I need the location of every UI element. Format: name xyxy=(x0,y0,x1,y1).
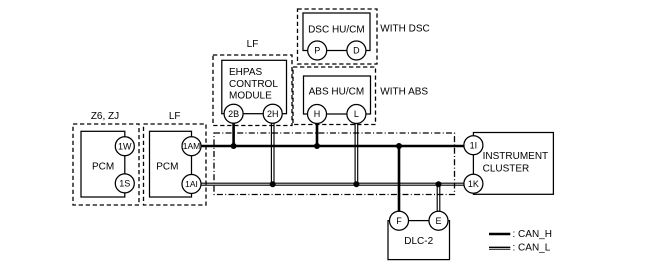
svg-text:F: F xyxy=(396,216,402,226)
component PCM (Z6, ZJ) xyxy=(81,131,125,197)
node Z6, ZJ variant dashed enclosure xyxy=(73,124,139,205)
junction on CAN_H at H drop xyxy=(314,143,320,149)
component PCM (LF) xyxy=(150,131,192,197)
pin 1I xyxy=(464,136,483,155)
node WITH DSC dashed enclosure xyxy=(298,9,378,64)
node LF variant dashed enclosure (EHPAS) xyxy=(213,55,292,126)
svg-text:L: L xyxy=(354,109,359,119)
svg-text:1AI: 1AI xyxy=(185,179,198,189)
svg-text:Z6, ZJ: Z6, ZJ xyxy=(91,111,119,122)
wire CAN_L riser to E (double line) xyxy=(437,183,440,211)
svg-text:1W: 1W xyxy=(118,141,132,151)
legend CAN_L sample line (double) xyxy=(489,247,510,249)
pin 2B xyxy=(224,104,243,123)
svg-text:EHPAS: EHPAS xyxy=(229,67,262,78)
pin P xyxy=(308,41,327,60)
wire CAN_H drop from H (thick) xyxy=(316,123,319,147)
component INSTRUMENT CLUSTER xyxy=(473,133,553,195)
wire CAN_H drop from 2B (thick) xyxy=(232,123,235,148)
pin F xyxy=(390,211,409,230)
pin 1K xyxy=(464,174,483,193)
pin L xyxy=(347,105,366,124)
pin E xyxy=(429,211,448,230)
pin 1AM xyxy=(182,137,201,156)
svg-text:LF: LF xyxy=(169,111,181,122)
svg-text:WITH DSC: WITH DSC xyxy=(380,23,429,34)
wire CAN bus shield boundary (dash-dot box) xyxy=(214,133,455,195)
pin H xyxy=(308,105,327,124)
node WITH ABS dashed enclosure xyxy=(293,67,376,125)
component DLC-2 xyxy=(388,221,450,260)
svg-text:: CAN_H: : CAN_H xyxy=(513,229,552,240)
svg-text:PCM: PCM xyxy=(92,161,114,172)
component ABS HU/CM xyxy=(304,76,371,114)
junction on CAN_H at F riser xyxy=(396,143,402,149)
wire CAN_L drop from L (double line) xyxy=(355,123,358,186)
svg-text:1S: 1S xyxy=(119,179,130,189)
svg-text:1K: 1K xyxy=(468,179,479,189)
svg-text:MODULE: MODULE xyxy=(229,91,272,102)
svg-text:1I: 1I xyxy=(470,140,478,150)
svg-text:LF: LF xyxy=(247,39,259,50)
svg-text:CLUSTER: CLUSTER xyxy=(483,164,530,175)
svg-text:1AM: 1AM xyxy=(183,141,200,151)
svg-text:2B: 2B xyxy=(228,109,239,119)
svg-text:P: P xyxy=(314,46,320,56)
junction on CAN_L at L drop xyxy=(353,181,359,187)
wire CAN_L bus (1AI to 1K, double line) xyxy=(201,183,464,185)
component DSC HU/CM xyxy=(303,13,370,51)
wire CAN_H riser to F (thick) xyxy=(398,145,401,212)
svg-text:INSTRUMENT: INSTRUMENT xyxy=(483,151,549,162)
wire CAN_L drop from 2H (double line) xyxy=(271,123,274,186)
svg-text:ABS HU/CM: ABS HU/CM xyxy=(309,87,365,98)
svg-text:2H: 2H xyxy=(267,109,279,119)
svg-text:WITH ABS: WITH ABS xyxy=(380,87,428,98)
pin 2H xyxy=(263,104,282,123)
svg-text:E: E xyxy=(435,216,441,226)
junction on CAN_H at 2B drop xyxy=(231,143,237,149)
pin 1W xyxy=(115,137,134,156)
pin 1AI xyxy=(182,175,201,194)
svg-text:D: D xyxy=(353,46,360,56)
svg-text:DLC-2: DLC-2 xyxy=(404,236,433,247)
wire CAN_H bus (1AM to 1I, thick) xyxy=(201,145,464,148)
legend CAN_H sample line xyxy=(489,233,510,235)
svg-text:CONTROL: CONTROL xyxy=(229,79,278,90)
svg-text:DSC HU/CM: DSC HU/CM xyxy=(308,25,365,36)
junction on CAN_L at E riser xyxy=(436,181,442,187)
node LF variant dashed enclosure (PCM) xyxy=(144,124,207,205)
svg-text:PCM: PCM xyxy=(156,161,178,172)
component EHPAS CONTROL MODULE xyxy=(222,60,287,113)
svg-text:: CAN_L: : CAN_L xyxy=(513,242,551,253)
svg-text:H: H xyxy=(314,109,321,119)
junction on CAN_L at 2H drop xyxy=(270,181,276,187)
pin 1S xyxy=(115,174,134,193)
pin D xyxy=(347,41,366,60)
